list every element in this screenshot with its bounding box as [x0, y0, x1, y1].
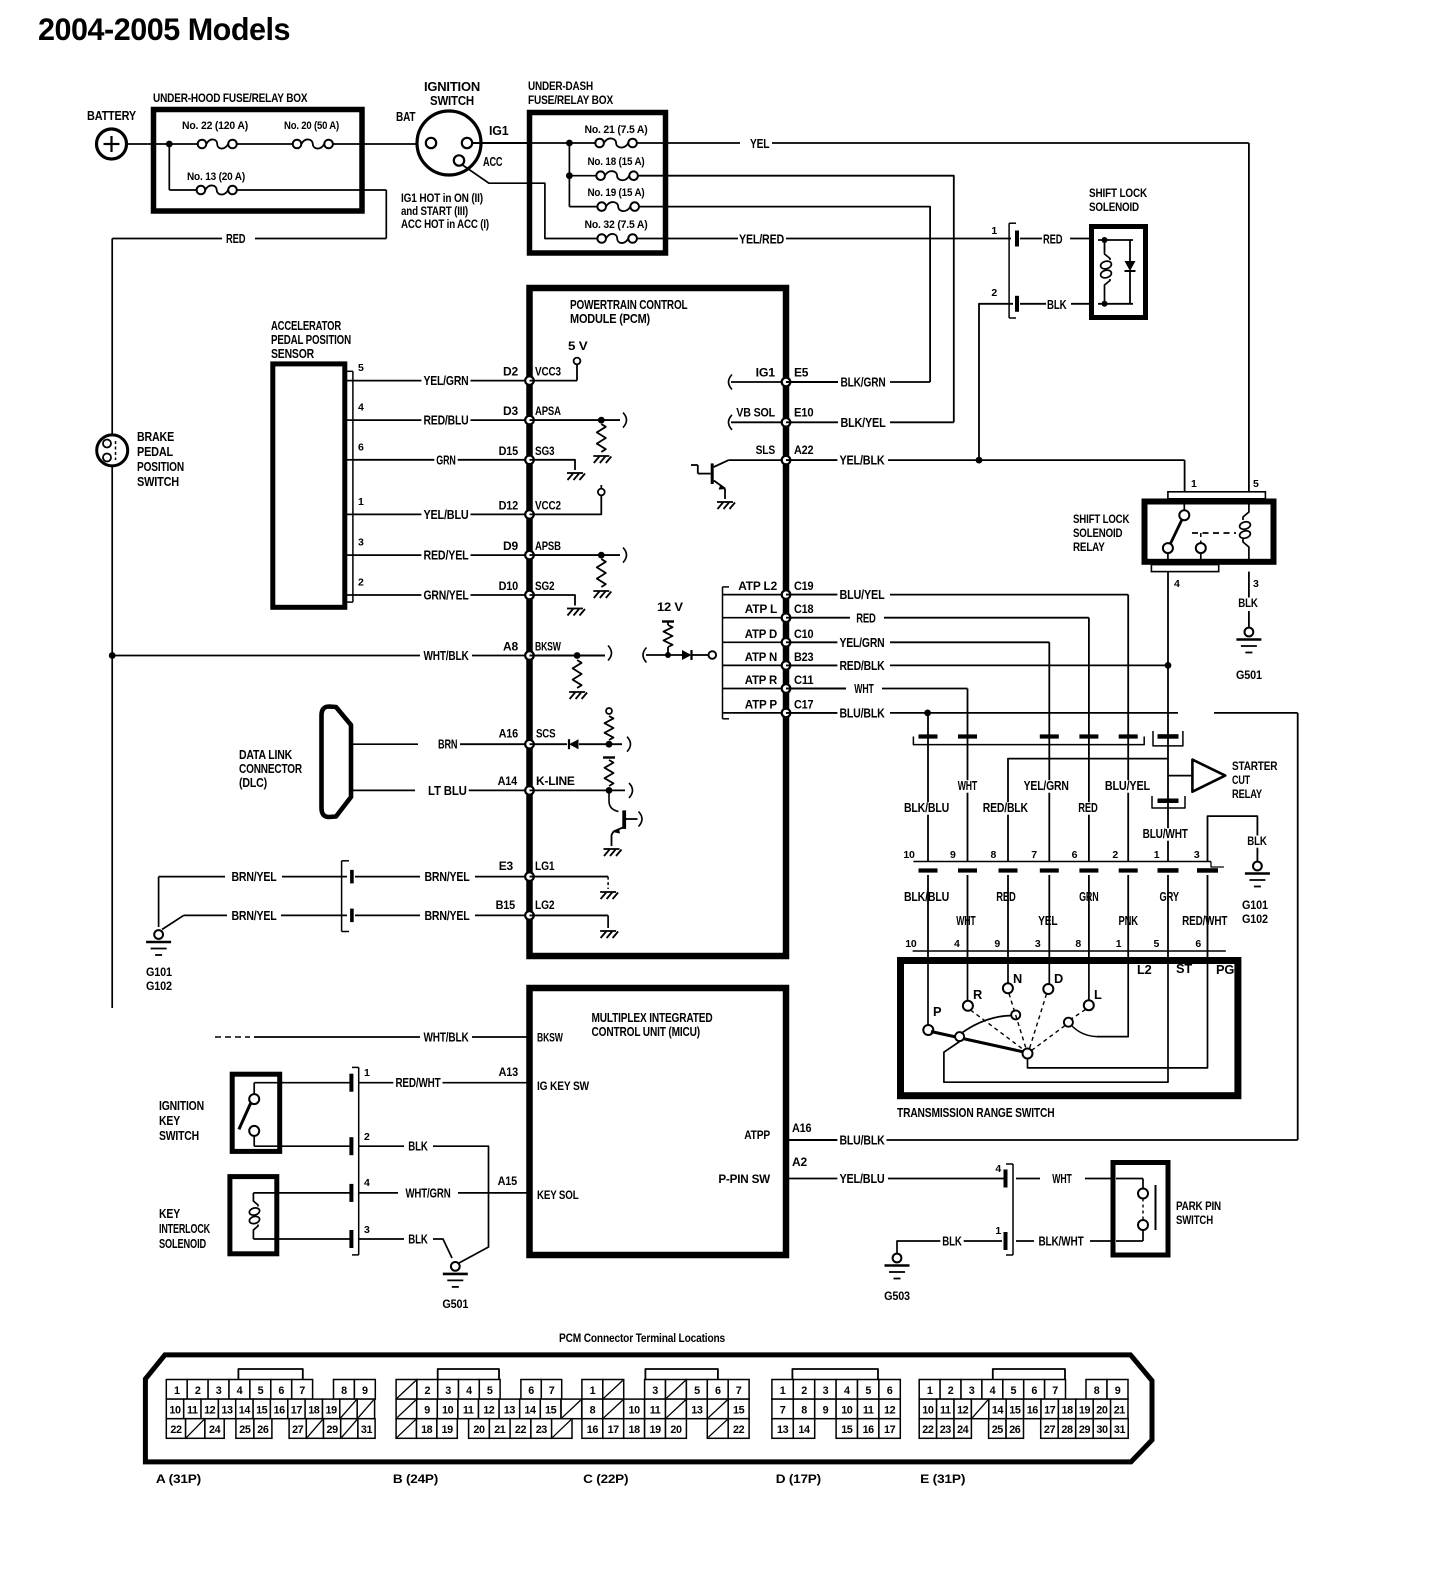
svg-text:7: 7 [549, 1385, 555, 1397]
terminal C cell 6 r1 [707, 1380, 728, 1400]
terminal C cell 22 r3 [728, 1419, 749, 1439]
svg-text:BLU/BLK: BLU/BLK [839, 1134, 884, 1148]
svg-text:7: 7 [1031, 849, 1037, 861]
svg-text:4: 4 [1174, 578, 1180, 590]
svg-text:ACC HOT in ACC (I): ACC HOT in ACC (I) [401, 217, 489, 231]
svg-text:19: 19 [441, 1424, 453, 1436]
svg-text:E3: E3 [499, 859, 514, 873]
terminal C cell 10 r2 [624, 1399, 645, 1419]
fuse No.13 [197, 186, 206, 195]
terminal C cell 16 r3 [582, 1419, 603, 1439]
svg-text:24: 24 [957, 1424, 969, 1436]
svg-text:16: 16 [1027, 1405, 1039, 1417]
svg-text:14: 14 [992, 1405, 1004, 1417]
svg-text:8: 8 [590, 1405, 596, 1417]
svg-text:12: 12 [204, 1405, 216, 1417]
terminal D cell 13 r3 [772, 1419, 793, 1439]
svg-text:YEL/GRN: YEL/GRN [423, 374, 468, 388]
svg-text:9: 9 [950, 849, 956, 861]
connector pin B15 row [350, 909, 354, 923]
svg-text:2: 2 [364, 1131, 370, 1143]
wire ACC to fuse32 [463, 165, 598, 239]
terminal D cell 15 r3 [836, 1419, 857, 1439]
svg-text:RED/WHT: RED/WHT [1182, 914, 1228, 928]
svg-text:18: 18 [308, 1405, 320, 1417]
svg-text:YEL/BLK: YEL/BLK [839, 454, 884, 468]
svg-text:No. 22 (120 A): No. 22 (120 A) [182, 120, 248, 132]
svg-text:BRN: BRN [438, 738, 458, 752]
svg-text:PEDAL: PEDAL [137, 445, 173, 459]
TRS connector line [913, 950, 1226, 952]
terminal E cell 11 r2 [937, 1399, 954, 1419]
terminal E cell 23 r3 [937, 1419, 954, 1439]
terminal B cell 15 r2 [540, 1399, 561, 1419]
wire LT BLU to PCM A14 K-LINE [351, 789, 415, 791]
terminal A cell / r2 [357, 1399, 374, 1419]
wire RED to shift lock solenoid [1020, 238, 1042, 240]
svg-text:3: 3 [1035, 938, 1041, 950]
wire label RED/WHT col8 lower [1180, 915, 1229, 928]
svg-text:LT BLU: LT BLU [428, 784, 467, 798]
svg-text:SOLENOID: SOLENOID [159, 1237, 206, 1251]
PCM internal APSA resistor to ground [530, 419, 621, 421]
svg-text:C17: C17 [794, 697, 814, 711]
svg-text:VB SOL: VB SOL [736, 406, 775, 420]
terminal E cell 2 r1 [940, 1380, 961, 1400]
terminal A cell 3 r1 [208, 1380, 229, 1400]
terminal E cell 16 r2 [1024, 1399, 1041, 1419]
wire WHT/BLK to MICU BKSW [215, 1036, 250, 1038]
svg-text:D2: D2 [503, 365, 518, 379]
wire BLK/WHT to park pin switch [1016, 1240, 1034, 1242]
wire BRN/YEL to PCM E3 LG1 [355, 876, 420, 878]
svg-text:YEL/BLU: YEL/BLU [839, 1172, 884, 1186]
ground G503 [893, 1254, 902, 1263]
wire label YEL/GRN col4 [1022, 780, 1071, 793]
svg-text:CONNECTOR: CONNECTOR [239, 762, 302, 776]
svg-text:20: 20 [1096, 1405, 1108, 1417]
wire battery to under-hood box [127, 143, 157, 145]
wires columns down to TRS [927, 875, 929, 961]
terminal bracket [792, 1369, 878, 1380]
svg-text:D15: D15 [499, 444, 519, 458]
svg-text:WHT: WHT [854, 682, 874, 696]
svg-text:ATPP: ATPP [744, 1128, 770, 1142]
svg-text:MULTIPLEX INTEGRATED: MULTIPLEX INTEGRATED [592, 1011, 713, 1025]
svg-text:SHIFT LOCK: SHIFT LOCK [1089, 186, 1147, 200]
terminal E cell 6 r1 [1024, 1380, 1045, 1400]
PCM internal SG3 ground [530, 460, 576, 470]
svg-text:A16: A16 [499, 727, 519, 741]
terminal C cell 8 r2 [582, 1399, 603, 1419]
svg-text:8: 8 [1075, 938, 1081, 950]
multiplex integrated control unit MICU box [530, 988, 787, 1255]
terminal D cell 1 r1 [772, 1380, 793, 1400]
svg-text:B23: B23 [794, 650, 814, 664]
svg-text:No. 13 (20 A): No. 13 (20 A) [187, 171, 245, 183]
terminal C cell 18 r3 [624, 1419, 645, 1439]
terminal A cell 18 r2 [305, 1399, 322, 1419]
relay pin 3 wire to ground G501 [1248, 572, 1250, 604]
wire label WHT col2 [956, 780, 979, 793]
accelerator pedal position sensor box [273, 364, 345, 607]
brake pedal position switch [97, 435, 128, 466]
terminal C cell / r2 [707, 1399, 728, 1419]
terminal A cell 19 r2 [323, 1399, 340, 1419]
svg-text:G102: G102 [146, 979, 172, 993]
svg-text:UNDER-HOOD FUSE/RELAY BOX: UNDER-HOOD FUSE/RELAY BOX [153, 91, 308, 105]
PCM pin C10 ATP D wire YEL/GRN [723, 641, 787, 643]
terminal E cell 15 r2 [1006, 1399, 1023, 1419]
terminal B cell 14 r2 [520, 1399, 541, 1419]
svg-text:BLK: BLK [1047, 298, 1067, 312]
data link connector DLC shape [322, 707, 352, 818]
svg-text:BKSW: BKSW [537, 1031, 563, 1045]
wire fuse18 to PCM E10 BLK/YEL [638, 176, 954, 423]
terminal B cell / r2 [561, 1399, 582, 1419]
svg-text:14: 14 [798, 1424, 810, 1436]
PCM pin C19 ATP L2 wire BLU/YEL [723, 594, 787, 596]
svg-text:G101: G101 [1242, 898, 1268, 912]
ground G101 G102 right [1253, 862, 1262, 871]
svg-text:12 V: 12 V [657, 600, 683, 614]
PCM internal LG1 ground [530, 876, 609, 878]
wire WHT/BLK to PCM A8 BKSW [109, 652, 116, 659]
svg-text:No. 32 (7.5 A): No. 32 (7.5 A) [585, 219, 648, 231]
terminal C cell / r1 [603, 1380, 624, 1400]
svg-text:9: 9 [994, 938, 1000, 950]
svg-text:SWITCH: SWITCH [137, 475, 179, 489]
svg-text:1: 1 [780, 1385, 786, 1397]
svg-text:10: 10 [922, 1405, 934, 1417]
connector pin 4 interlock [253, 1192, 351, 1194]
svg-text:YEL: YEL [750, 137, 770, 151]
svg-text:21: 21 [1114, 1405, 1126, 1417]
battery symbol [97, 129, 127, 159]
terminal A cell 31 r3 [358, 1419, 375, 1439]
svg-text:RED/BLK: RED/BLK [983, 801, 1028, 815]
svg-text:22: 22 [922, 1424, 934, 1436]
svg-text:22: 22 [515, 1424, 527, 1436]
svg-text:4: 4 [358, 402, 364, 414]
svg-text:WHT/GRN: WHT/GRN [405, 1186, 450, 1200]
svg-text:3: 3 [445, 1385, 451, 1397]
connector shift lock solenoid bracket [1008, 223, 1010, 318]
TRS selector arm [931, 1032, 1024, 1053]
svg-text:1: 1 [1154, 849, 1160, 861]
TRS PG route [1028, 961, 1208, 1068]
wire label GRY col7 lower [1158, 891, 1181, 904]
svg-text:6: 6 [1031, 1385, 1037, 1397]
svg-text:D9: D9 [503, 539, 518, 553]
connector row2 pin bar x1008 [999, 868, 1018, 872]
wire junction down to fuse13 [168, 144, 170, 190]
svg-text:4: 4 [466, 1385, 472, 1397]
svg-text:21: 21 [494, 1424, 506, 1436]
svg-text:10: 10 [905, 938, 917, 950]
svg-text:BLK/BLU: BLK/BLU [904, 890, 949, 904]
svg-text:WHT: WHT [1052, 1172, 1072, 1186]
svg-text:6: 6 [358, 441, 364, 453]
terminal B cell 11 r2 [458, 1399, 479, 1419]
svg-text:2004-2005 Models: 2004-2005 Models [38, 11, 290, 47]
node YEL/BLK junction with solenoid ground branch [976, 457, 983, 464]
svg-text:5: 5 [358, 362, 364, 374]
wire fuse13 out to RED corner [237, 189, 386, 191]
ignition key switch contacts [249, 1094, 259, 1104]
svg-text:4: 4 [990, 1385, 996, 1397]
connector row1 pin bar x1128 [1119, 734, 1138, 738]
terminal E cell 5 r1 [1003, 1380, 1024, 1400]
terminal C cell 1 r1 [582, 1380, 603, 1400]
svg-text:BRN/YEL: BRN/YEL [424, 909, 470, 923]
svg-text:BLK/YEL: BLK/YEL [840, 416, 886, 430]
svg-text:5: 5 [865, 1385, 871, 1397]
wire label RED col3 lower [994, 891, 1017, 904]
wire WHT to park pin switch [1016, 1178, 1040, 1180]
svg-text:TRANSMISSION RANGE SWITCH: TRANSMISSION RANGE SWITCH [897, 1105, 1055, 1120]
terminal E cell 21 r2 [1111, 1399, 1128, 1419]
svg-text:G102: G102 [1242, 912, 1268, 926]
terminal C cell 7 r1 [728, 1380, 749, 1400]
svg-text:RED/YEL: RED/YEL [423, 549, 469, 563]
svg-text:G101: G101 [146, 965, 172, 979]
PCM internal VCC2 terminal [530, 496, 602, 515]
svg-text:23: 23 [940, 1424, 952, 1436]
terminal C cell 5 r1 [686, 1380, 707, 1400]
terminal A cell 12 r2 [201, 1399, 218, 1419]
svg-text:15: 15 [545, 1405, 557, 1417]
svg-text:C (22P): C (22P) [583, 1472, 628, 1486]
svg-text:29: 29 [1079, 1424, 1091, 1436]
svg-text:C10: C10 [794, 627, 814, 641]
powertrain control module PCM box [530, 288, 787, 956]
svg-text:11: 11 [187, 1405, 198, 1417]
terminal E cell 14 r2 [989, 1399, 1006, 1419]
terminal D cell 4 r1 [836, 1380, 857, 1400]
svg-text:BRN/YEL: BRN/YEL [231, 909, 277, 923]
svg-text:A22: A22 [794, 443, 814, 457]
terminal D cell 16 r3 [858, 1419, 879, 1439]
svg-text:4: 4 [954, 938, 960, 950]
svg-text:10: 10 [841, 1405, 853, 1417]
svg-text:RELAY: RELAY [1232, 787, 1262, 801]
svg-text:IG KEY SW: IG KEY SW [537, 1079, 590, 1093]
svg-text:SWITCH: SWITCH [430, 94, 474, 108]
svg-text:ATP R: ATP R [745, 673, 778, 687]
svg-text:No. 19 (15 A): No. 19 (15 A) [588, 187, 645, 199]
terminal B cell 10 r2 [437, 1399, 458, 1419]
PCM internal BKSW resistor to ground [530, 655, 606, 657]
TRS contact D [1048, 961, 1050, 985]
svg-text:3: 3 [1253, 578, 1259, 590]
connector park pin bracket [1012, 1164, 1014, 1255]
TRS common contact [1023, 1049, 1033, 1059]
terminal B cell 9 r2 [417, 1399, 438, 1419]
svg-text:12: 12 [483, 1405, 495, 1417]
terminal A cell 8 r1 [334, 1380, 355, 1400]
TRS contact N [1007, 961, 1009, 984]
svg-text:E (31P): E (31P) [920, 1472, 965, 1486]
wire fuse22 to fuse20 [237, 143, 292, 145]
svg-text:11: 11 [463, 1405, 474, 1417]
terminal C cell 20 r3 [666, 1419, 687, 1439]
wire BLK to ground G503 [937, 1240, 1002, 1242]
svg-text:YEL/GRN: YEL/GRN [1024, 779, 1069, 793]
svg-text:27: 27 [1044, 1424, 1056, 1436]
wire column4 YEL down [1048, 737, 1050, 862]
terminal D cell 14 r3 [793, 1419, 814, 1439]
svg-text:VCC2: VCC2 [535, 498, 561, 512]
key interlock solenoid box [230, 1177, 277, 1254]
connector ignition key bracket [358, 1067, 360, 1255]
svg-text:3: 3 [216, 1385, 222, 1397]
terminal C cell / r2 [666, 1399, 687, 1419]
svg-text:19: 19 [649, 1424, 661, 1436]
svg-text:3: 3 [364, 1224, 370, 1236]
svg-text:13: 13 [221, 1405, 233, 1417]
connector row1 pin bar x1088 [1079, 734, 1098, 738]
connector row1 pin bar x928 [919, 734, 938, 738]
terminal A cell / r3 [341, 1419, 358, 1439]
APP sensor pin 6 wire GRN to PCM D15 SG3 [346, 459, 353, 461]
PCM internal SLS transistor [711, 463, 714, 484]
svg-text:6: 6 [1072, 849, 1078, 861]
svg-text:BLK/GRN: BLK/GRN [840, 376, 885, 390]
svg-text:FUSE/RELAY BOX: FUSE/RELAY BOX [528, 93, 614, 107]
terminal B cell 18 r3 [417, 1419, 437, 1439]
svg-text:2: 2 [991, 287, 997, 299]
terminal E cell 22 r3 [919, 1419, 936, 1439]
svg-text:RED/WHT: RED/WHT [395, 1076, 441, 1090]
PCM pin E5 IG1 wire BLK/GRN [729, 375, 733, 390]
terminal D cell 5 r1 [858, 1380, 879, 1400]
key interlock solenoid coil [253, 1193, 258, 1207]
terminal D cell 17 r3 [879, 1419, 900, 1439]
TRS ST route [944, 961, 1168, 1083]
svg-text:30: 30 [1096, 1424, 1108, 1436]
svg-text:BLK: BLK [408, 1233, 428, 1247]
PCM internal VCC3 wire [530, 380, 578, 382]
svg-text:SENSOR: SENSOR [271, 347, 314, 361]
svg-text:BRN/YEL: BRN/YEL [231, 870, 277, 884]
svg-text:11: 11 [650, 1405, 661, 1417]
svg-text:5: 5 [1010, 1385, 1016, 1397]
svg-text:5: 5 [1253, 478, 1259, 490]
svg-text:C11: C11 [794, 673, 814, 687]
connector row 2 line [913, 861, 1211, 863]
connector pin 4 park pin [1004, 1170, 1008, 1188]
svg-text:E5: E5 [794, 366, 809, 380]
node RED/BLK junction relay pin4 [1165, 662, 1172, 669]
terminal C cell / r3 [707, 1419, 728, 1439]
fuse No.19 [597, 202, 606, 211]
terminal B cell 12 r2 [479, 1399, 500, 1419]
svg-text:GRN: GRN [436, 453, 456, 467]
svg-text:31: 31 [1114, 1424, 1126, 1436]
svg-text:6: 6 [715, 1385, 721, 1397]
terminal C cell / r2 [603, 1399, 624, 1419]
ground G101 G102 left [158, 921, 160, 927]
svg-text:13: 13 [777, 1424, 789, 1436]
svg-text:BLU/BLK: BLU/BLK [839, 707, 884, 721]
svg-text:31: 31 [361, 1424, 373, 1436]
svg-text:YEL/RED: YEL/RED [739, 233, 784, 247]
shift lock solenoid relay switch [1183, 499, 1185, 510]
svg-text:BLU/YEL: BLU/YEL [839, 588, 885, 602]
terminal A cell / r2 [340, 1399, 357, 1419]
connector row2 pin bar x1088 [1079, 868, 1098, 872]
terminal B cell 6 r1 [521, 1380, 541, 1400]
terminal A cell 9 r1 [354, 1380, 375, 1400]
svg-text:P-PIN SW: P-PIN SW [718, 1172, 770, 1186]
under-dash fuse/relay box [530, 113, 666, 254]
terminal E cell / r2 [971, 1399, 988, 1419]
svg-text:PG: PG [1216, 962, 1234, 977]
terminal C cell 17 r3 [603, 1419, 624, 1439]
svg-text:C19: C19 [794, 579, 814, 593]
connector row2 pin bar x1128 [1119, 868, 1138, 872]
terminal B cell 23 r3 [531, 1419, 552, 1439]
svg-text:BLU/WHT: BLU/WHT [1143, 827, 1189, 841]
svg-text:BKSW: BKSW [535, 640, 561, 654]
svg-text:6: 6 [887, 1385, 893, 1397]
TRS L contact [1064, 1018, 1073, 1027]
svg-text:6: 6 [278, 1385, 284, 1397]
TRS contact P [927, 961, 929, 1026]
connector pin 1 key switch [254, 1082, 351, 1084]
svg-text:1: 1 [927, 1385, 933, 1397]
wire label YEL col4 lower [1036, 915, 1059, 928]
svg-text:BLK: BLK [1247, 834, 1267, 848]
svg-text:SG2: SG2 [535, 579, 555, 593]
svg-text:D: D [1054, 971, 1063, 986]
svg-text:A13: A13 [499, 1065, 519, 1079]
wire label GRN col5 lower [1077, 891, 1100, 904]
connector row2 pin bar x1049 [1040, 868, 1059, 872]
wire YEL from fuse21 to shift lock solenoid relay pin5 [637, 142, 740, 144]
terminal B cell / r3 [552, 1419, 572, 1439]
svg-text:7: 7 [736, 1385, 742, 1397]
wire BRN to PCM A16 SCS [351, 743, 418, 745]
svg-text:8: 8 [991, 849, 997, 861]
svg-text:SCS: SCS [536, 727, 556, 741]
wire BLU/BLK ATP P to right side loop [786, 712, 838, 714]
terminal A cell 13 r2 [218, 1399, 235, 1419]
terminal A cell / r3 [186, 1419, 205, 1439]
terminal E cell 27 r3 [1041, 1419, 1059, 1439]
svg-text:GRN/YEL: GRN/YEL [423, 589, 469, 603]
terminal D cell 3 r1 [815, 1380, 836, 1400]
svg-text:18: 18 [1061, 1405, 1073, 1417]
svg-text:10: 10 [903, 849, 915, 861]
svg-text:14: 14 [239, 1405, 251, 1417]
under-hood fuse/relay box [154, 110, 363, 212]
connector pin 2 key switch [254, 1145, 351, 1147]
svg-text:L: L [1094, 987, 1102, 1002]
svg-text:1: 1 [364, 1067, 370, 1079]
terminal E cell 8 r1 [1086, 1380, 1107, 1400]
svg-text:STARTER: STARTER [1232, 759, 1278, 773]
PCM pin E10 VB SOL wire BLK/YEL [729, 415, 733, 430]
fuse No.18 [596, 171, 605, 180]
svg-text:3: 3 [823, 1385, 829, 1397]
wire label PNK col6 lower [1117, 915, 1140, 928]
svg-text:SOLENOID: SOLENOID [1073, 526, 1123, 540]
terminal E cell 31 r3 [1111, 1419, 1129, 1439]
svg-text:25: 25 [239, 1424, 251, 1436]
TRS L2 route [1097, 961, 1129, 1037]
